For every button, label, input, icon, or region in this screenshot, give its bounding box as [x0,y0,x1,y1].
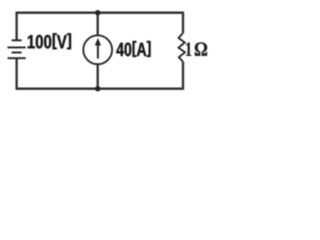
current source arrow head [95,38,101,46]
battery plate short top [12,39,22,41]
junction node top [95,10,100,15]
resistor R1 zigzag [179,33,186,62]
label 40[A] [116,41,150,57]
wire left lower (from battery) [15,59,17,90]
battery plate long bottom [8,57,26,59]
wire top [17,12,183,14]
wire right upper (to resistor) [182,12,184,33]
wire left upper (to battery) [15,12,17,40]
wire bottom [17,88,183,90]
battery plate short [12,52,22,54]
current source I1 circle [83,35,112,64]
battery plate long [8,46,26,48]
wire middle lower (from current source) [97,64,99,89]
current source arrow shaft [97,44,99,59]
junction node bottom [95,86,100,91]
label 100[V] [28,33,71,49]
wire right lower (from resistor) [182,62,184,90]
battery V1 plates [8,40,26,58]
wire middle upper (to current source) [97,13,99,36]
label 1 ohm [186,42,207,55]
